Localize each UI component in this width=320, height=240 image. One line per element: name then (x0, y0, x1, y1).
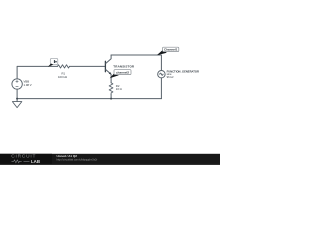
svg-text:100 kΩ: 100 kΩ (58, 75, 67, 79)
svg-text:Channel1: Channel1 (164, 48, 178, 52)
svg-text:96 Hz: 96 Hz (167, 75, 175, 79)
svg-text:LAB: LAB (31, 159, 40, 164)
svg-text:channel2: channel2 (116, 71, 129, 75)
svg-text:Uoned / A1 Q2: Uoned / A1 Q2 (57, 154, 78, 158)
svg-text:1.98 V: 1.98 V (24, 83, 32, 87)
svg-text:http://circuitlab.com/c/kbpqgd: http://circuitlab.com/c/kbpqgdm3s2r (57, 158, 98, 162)
svg-text:TRANSISTOR: TRANSISTOR (113, 64, 135, 68)
svg-text:10 Ω: 10 Ω (116, 87, 122, 91)
